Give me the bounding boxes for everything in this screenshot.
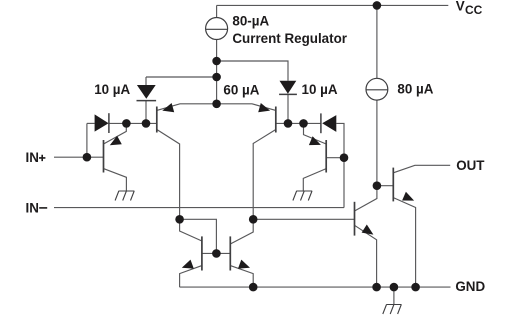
svg-text:80-µA: 80-µA [232, 13, 269, 28]
svg-text:10 µA: 10 µA [94, 82, 130, 97]
svg-text:OUT: OUT [456, 158, 485, 173]
svg-text:IN: IN [26, 150, 39, 165]
svg-text:V: V [456, 0, 465, 14]
svg-text:GND: GND [455, 279, 485, 294]
svg-text:60 µA: 60 µA [223, 82, 259, 97]
svg-text:IN: IN [26, 200, 39, 215]
svg-text:80 µA: 80 µA [397, 82, 433, 97]
svg-text:Current Regulator: Current Regulator [232, 31, 347, 46]
svg-text:10 µA: 10 µA [302, 82, 338, 97]
svg-text:CC: CC [465, 3, 483, 17]
